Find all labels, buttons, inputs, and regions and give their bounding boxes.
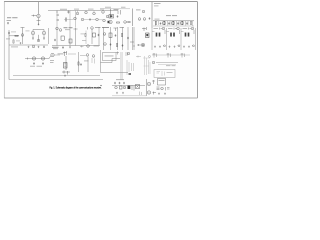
svg-text:Fig. 1. Schematic diagram of t: Fig. 1. Schematic diagram of the communi… xyxy=(50,86,102,90)
transformer T6 xyxy=(146,33,150,38)
resistor R1 xyxy=(65,18,66,21)
label smudge bm xyxy=(52,46,59,49)
marks v23c xyxy=(80,46,84,48)
unit 1 gnd b xyxy=(159,46,161,48)
unit tick a xyxy=(152,31,155,33)
border top edge xyxy=(4,1,197,3)
tube V15 xyxy=(143,18,146,21)
tube V1 xyxy=(37,14,40,17)
label smudge left band2 d xyxy=(26,30,30,33)
unit 1 cap xyxy=(162,45,165,47)
wire af link xyxy=(54,54,76,55)
ground G2c xyxy=(38,46,40,48)
wire v b4 xyxy=(146,79,148,96)
wire tee xyxy=(118,10,121,15)
wire out xyxy=(127,21,132,23)
resistor R9 xyxy=(13,40,14,43)
tube V18 xyxy=(42,31,45,34)
wire left stub xyxy=(9,35,19,37)
unit 3 tube xyxy=(191,27,194,30)
capacitor C1 xyxy=(7,22,9,24)
wire link d xyxy=(130,41,134,43)
transformer T4 xyxy=(93,33,96,37)
label smudge mid top b xyxy=(65,28,70,31)
tube V23 xyxy=(91,27,94,30)
unit 3 cap xyxy=(191,45,194,47)
wire b3r h1 xyxy=(156,62,178,64)
label smudge IF xyxy=(114,8,119,11)
wire between tubes xyxy=(38,35,40,41)
wire ladder top xyxy=(153,20,194,22)
wire b3r h2 xyxy=(158,63,176,65)
ladder ticks xyxy=(156,21,193,26)
unit 1 res b xyxy=(159,33,160,37)
wire top bus xyxy=(48,10,118,12)
capacitor C14 xyxy=(110,43,112,45)
transformer T1 xyxy=(109,15,114,19)
wire drop x70 xyxy=(69,11,71,31)
box b3r contents xyxy=(157,71,165,76)
capacitor C16 xyxy=(127,37,129,39)
wire drop v4 xyxy=(93,11,95,13)
wire IF vertical xyxy=(110,9,112,19)
transformer T2 xyxy=(61,36,64,40)
wire v x122 xyxy=(122,27,124,50)
tube V11 xyxy=(109,20,112,23)
wire cathode V1 xyxy=(37,18,41,25)
tube V4 xyxy=(93,12,96,15)
wire b3r bus xyxy=(152,54,190,56)
capacitor C17b xyxy=(43,35,45,40)
wire drop x75.5 xyxy=(75,11,77,28)
box b4 x xyxy=(136,85,140,89)
T1 core mark xyxy=(110,15,112,17)
resistor R11 xyxy=(121,33,122,36)
capacitor C18 xyxy=(42,62,44,64)
tube V17 xyxy=(31,31,34,34)
wire v x110 xyxy=(110,27,112,50)
unit 2 top link xyxy=(168,28,177,30)
label smudge ladder xyxy=(155,18,160,21)
capacitor C13 xyxy=(115,34,117,36)
wire long bus b3b corner xyxy=(9,79,103,81)
cluster comp xyxy=(63,51,67,56)
unit 1 gnd a xyxy=(154,46,156,48)
tube V28 xyxy=(41,57,44,60)
ladder box 2 xyxy=(172,22,174,25)
comp b3r1 xyxy=(153,53,157,58)
wire ladder bottom xyxy=(153,25,194,27)
tube V2 xyxy=(76,12,79,15)
wire long bus b3a xyxy=(13,75,100,77)
tube V21 xyxy=(59,29,62,32)
marks af right xyxy=(92,58,95,64)
ladder box 3 xyxy=(181,22,183,25)
tube V6 xyxy=(106,15,109,18)
unit 1 drop xyxy=(164,30,166,34)
gnd b4b xyxy=(164,93,166,95)
resistor R4 xyxy=(164,21,165,24)
label smudge af2 xyxy=(58,53,64,56)
label smudge box b4r xyxy=(159,79,165,82)
label smudge top right b xyxy=(154,5,159,8)
wire drop x57 xyxy=(56,11,58,31)
wire top link xyxy=(33,30,44,32)
capacitor C10 xyxy=(54,39,56,41)
unit 3 gnd a xyxy=(183,46,185,48)
cluster b3 mid xyxy=(127,60,134,75)
label smudge left band2 xyxy=(6,38,10,41)
resistor R12 xyxy=(116,43,117,46)
transformer T3 xyxy=(69,39,72,43)
tube V37 xyxy=(161,87,164,90)
comp b3r3 xyxy=(181,53,185,58)
box b4 xyxy=(120,86,123,89)
tube V7 xyxy=(74,17,77,20)
label text smudge left xyxy=(7,16,11,19)
wire unit divider c xyxy=(180,28,182,50)
wire b4 bottom xyxy=(112,95,146,97)
wire lead V26 xyxy=(137,44,141,46)
wire tee d xyxy=(114,28,118,31)
unit 3 res b xyxy=(188,33,189,37)
tube V34 xyxy=(123,86,126,89)
wire step xyxy=(101,59,121,63)
label smudge bl2 xyxy=(53,47,58,50)
capacitor C17a xyxy=(32,35,34,40)
wire v pair x121 xyxy=(121,52,122,80)
ground V1 xyxy=(38,23,40,25)
label smudge af5 xyxy=(84,60,89,63)
label smudge top mid2 xyxy=(121,6,126,9)
ground G2 xyxy=(20,42,22,44)
wire v af2 xyxy=(78,52,80,72)
wire tick xyxy=(87,27,89,30)
marks b4 xyxy=(132,85,134,91)
label smudge right1 xyxy=(136,9,141,12)
label smudge af xyxy=(30,65,35,68)
capacitor C4 xyxy=(149,17,151,19)
capacitor C11 xyxy=(62,46,64,48)
label smudge d1 xyxy=(102,26,109,29)
wire right stub band2 xyxy=(48,28,50,44)
wire v af3 xyxy=(87,57,89,72)
page background xyxy=(0,0,200,104)
wire b4 h xyxy=(112,85,145,87)
border right edge xyxy=(196,2,198,98)
tube V36 big xyxy=(147,91,150,94)
tube V30 xyxy=(86,54,89,57)
wire V12 lead xyxy=(127,21,131,23)
wire top link h xyxy=(100,8,130,10)
wire af link2 xyxy=(80,55,86,57)
blob V11 base xyxy=(108,21,110,23)
wire antenna drop xyxy=(38,2,40,14)
dot node xyxy=(134,46,135,47)
label smudge b3r xyxy=(166,64,171,67)
tube V12 xyxy=(124,21,127,24)
marks b4e xyxy=(140,92,142,96)
capacitor C2 xyxy=(89,18,91,20)
unit tick b xyxy=(167,31,170,33)
box b3r label xyxy=(167,71,173,74)
capacitor C6 xyxy=(168,22,170,24)
tube V25 xyxy=(104,43,107,46)
resistor R10 xyxy=(85,33,86,36)
resistor R8 xyxy=(15,35,18,36)
label smudge box xyxy=(105,55,114,58)
capacitor C12 xyxy=(98,34,100,36)
tube V26 xyxy=(141,43,144,46)
power box outline xyxy=(103,53,117,61)
unit 2 gnd b xyxy=(174,46,176,48)
tube V19 xyxy=(37,39,40,42)
wire vertical v21 xyxy=(69,30,71,46)
marks step b xyxy=(126,52,128,56)
wire drop v5 xyxy=(102,10,104,12)
wire af lead xyxy=(27,58,29,60)
wire v x128 xyxy=(127,27,129,50)
gnd b4a xyxy=(158,93,160,95)
tube V29 xyxy=(51,53,54,56)
coil L1 xyxy=(67,11,70,14)
ground G2b xyxy=(28,46,30,48)
comp b4r2 xyxy=(166,87,170,91)
resistor R5 xyxy=(173,21,174,24)
unit 2 res a xyxy=(170,33,171,37)
tube V14 xyxy=(138,18,141,21)
tube V3 xyxy=(85,11,88,14)
box x mark xyxy=(136,85,140,89)
marks mid b3 top xyxy=(136,56,141,58)
wire row link xyxy=(64,19,74,21)
marks right of V1 xyxy=(57,14,60,20)
label smudge row top xyxy=(60,8,67,11)
wire drop v3 xyxy=(85,10,87,13)
wire vertical v24 xyxy=(98,27,100,45)
wire bottom bus band2 mid xyxy=(52,45,100,47)
label smudge speaker row xyxy=(166,14,171,17)
wire right divider xyxy=(195,28,197,50)
wire unit divider b xyxy=(166,28,168,50)
label smudge left band2 b xyxy=(11,31,16,34)
tube V32 xyxy=(152,61,155,64)
capacitor C15 xyxy=(122,44,124,46)
ground b4d xyxy=(122,92,124,94)
capacitor C3 xyxy=(117,15,119,17)
wire drop v2 xyxy=(77,11,79,13)
wire v x117 xyxy=(117,27,119,50)
node dot bl xyxy=(100,85,101,86)
unit 3 drop xyxy=(193,30,195,34)
T7 marks xyxy=(64,64,66,67)
resistor R7 xyxy=(190,21,191,24)
resistor R2 xyxy=(116,22,119,23)
cap row b4 xyxy=(114,82,116,84)
tube V16 xyxy=(21,34,24,37)
unit 2 drop xyxy=(179,30,181,34)
tube Vstep xyxy=(127,52,130,55)
tube V24 xyxy=(103,33,106,36)
wire v af1 xyxy=(65,56,67,70)
marks b4 bottom xyxy=(153,92,157,95)
capacitor C19 xyxy=(80,63,82,65)
wire bus tick xyxy=(56,11,58,14)
label smudge above bus xyxy=(74,8,79,11)
blob b4 xyxy=(128,86,131,90)
unit 1 res a xyxy=(156,33,157,37)
unit 2 res b xyxy=(173,33,174,37)
tube V8 xyxy=(81,18,84,21)
blob T6 core xyxy=(146,34,148,36)
label smudge bm2 xyxy=(94,45,100,48)
label smudge above bus 2 xyxy=(88,8,94,11)
wire tee left xyxy=(21,28,25,45)
wire v x133 pair xyxy=(133,27,135,50)
cluster b3 right verts xyxy=(145,56,151,75)
wire bottom bus band2 left xyxy=(9,44,48,46)
tube V13 xyxy=(142,10,145,13)
marks b4 left xyxy=(152,80,155,84)
tube V27 xyxy=(32,57,35,60)
label smudge b4 top xyxy=(116,78,124,81)
comp b4r1 xyxy=(157,87,160,89)
wire v x103 xyxy=(103,27,105,50)
label text smudge left 2 xyxy=(7,19,12,22)
tube V35 big xyxy=(147,82,150,85)
cap row b4 c xyxy=(123,82,125,84)
ground G3 xyxy=(69,46,71,48)
resistor R6 xyxy=(182,21,183,24)
wire left vertical long xyxy=(8,30,10,80)
wire link rise xyxy=(49,56,51,59)
border frame xyxy=(4,2,197,98)
transformer T5 xyxy=(109,33,112,38)
wire vertical v23 xyxy=(91,30,93,45)
wire row link2 xyxy=(84,19,96,21)
tube V31 xyxy=(92,55,95,58)
unit 3 res a xyxy=(185,33,186,37)
wire right vertical xyxy=(151,2,153,28)
capacitor C9 xyxy=(8,32,10,34)
capacitor C17 xyxy=(33,62,35,64)
unit 2 cap xyxy=(177,45,180,47)
ground G4 xyxy=(64,75,66,77)
label smudge top mid xyxy=(105,6,111,9)
tube V19b xyxy=(32,45,35,48)
label smudge mid top xyxy=(64,26,68,29)
wire af bus xyxy=(25,58,49,60)
label smudge r10b xyxy=(82,39,86,42)
cluster af bottom xyxy=(62,71,70,75)
wire row link3 xyxy=(99,19,104,21)
capacitor C7 xyxy=(177,22,179,24)
label smudge d2 xyxy=(120,26,125,29)
tube V33 xyxy=(115,86,118,89)
ladder box 1 xyxy=(163,22,165,25)
unit 2 tube xyxy=(177,27,180,30)
unit 1 tube xyxy=(162,27,165,30)
resistor R13 xyxy=(78,62,79,65)
wire h mid xyxy=(101,72,129,74)
wire grid lead V1 xyxy=(32,15,37,17)
tube V5 xyxy=(102,11,105,14)
ground b4c xyxy=(116,92,118,94)
box b3r xyxy=(154,70,175,78)
transformer T7 xyxy=(64,63,68,69)
label smudge r10 xyxy=(81,33,85,36)
marks step a xyxy=(116,52,119,55)
wire tee mid xyxy=(74,28,78,32)
wire vertical v22 xyxy=(75,31,77,46)
label smudge bl xyxy=(11,46,18,49)
tube V10 xyxy=(103,19,106,22)
tube Vmid xyxy=(149,56,151,58)
unit 3 top link xyxy=(183,28,192,30)
tube V22 xyxy=(87,45,90,48)
wire tee r xyxy=(142,27,147,31)
label smudge af4 xyxy=(50,61,54,64)
blob b3 xyxy=(129,73,132,75)
tube V20 xyxy=(56,27,59,30)
border bottom edge xyxy=(4,97,197,99)
wire mid vertical xyxy=(132,9,134,27)
capacitor C5 xyxy=(160,22,162,24)
box b4r xyxy=(158,79,166,86)
capacitor C9b xyxy=(43,46,45,48)
unit tick c xyxy=(181,31,184,33)
wire vertical v20 xyxy=(56,30,58,46)
label smudge left band2 c xyxy=(16,40,20,43)
label smudge top right a xyxy=(154,2,161,5)
unit 2 gnd a xyxy=(169,46,171,48)
tube V9 xyxy=(96,18,99,21)
comp b3r2 xyxy=(167,53,171,58)
cap row b4 b xyxy=(119,82,121,84)
wire unit divider a xyxy=(151,28,153,50)
label smudge af3 xyxy=(50,59,54,62)
capacitor C8 xyxy=(186,22,188,24)
resistor R3 xyxy=(155,21,156,24)
label smudge mt2 xyxy=(95,26,101,29)
unit 1 top link xyxy=(154,28,163,30)
wire vertical v23b xyxy=(85,31,87,45)
unit 3 gnd b xyxy=(188,46,190,48)
label smudge above bus 3 xyxy=(100,8,104,11)
wire v x100 xyxy=(100,50,102,73)
